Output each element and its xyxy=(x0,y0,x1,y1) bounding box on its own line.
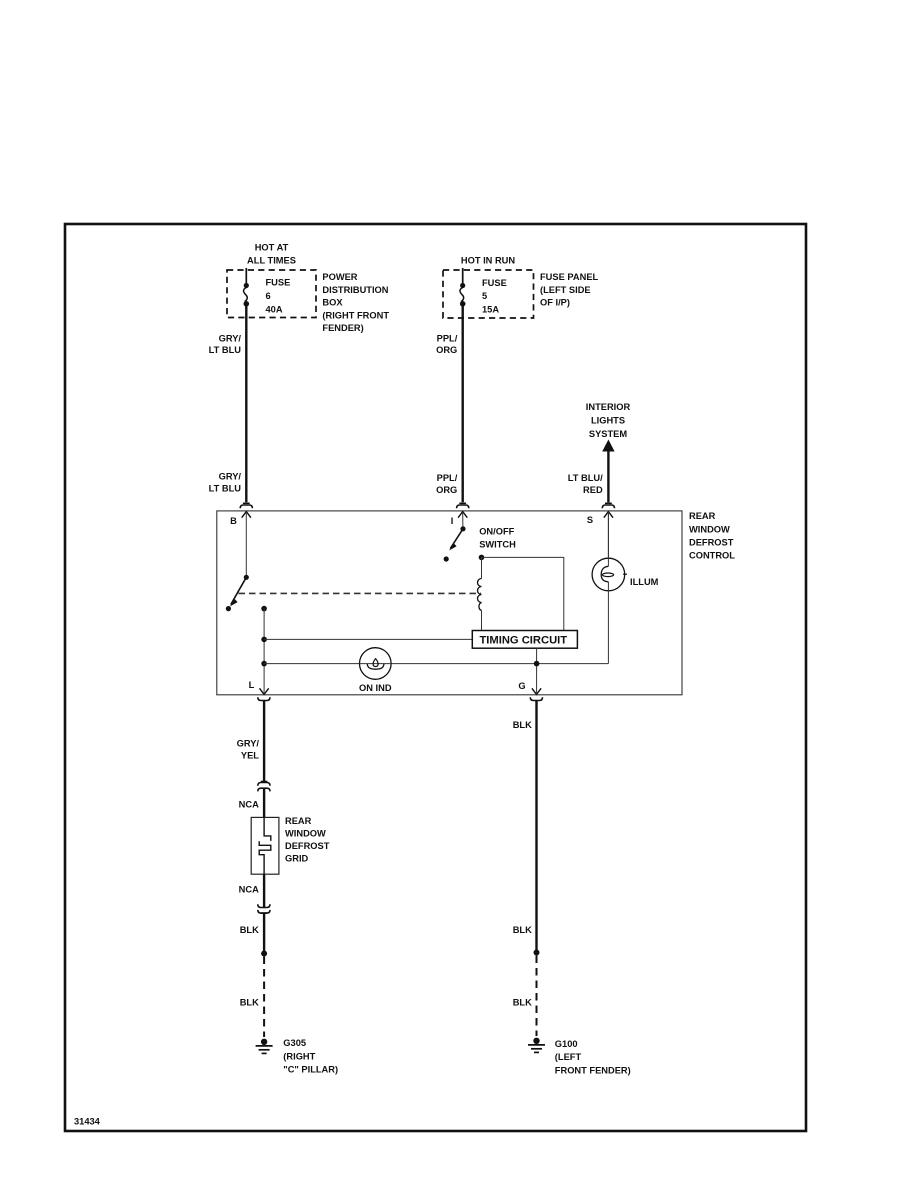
svg-text:(LEFT SIDE: (LEFT SIDE xyxy=(540,285,591,295)
svg-text:(LEFT: (LEFT xyxy=(555,1052,582,1062)
svg-text:ILLUM: ILLUM xyxy=(630,577,659,587)
svg-text:DISTRIBUTION: DISTRIBUTION xyxy=(322,285,388,295)
svg-text:WINDOW: WINDOW xyxy=(285,829,326,839)
svg-text:OF I/P): OF I/P) xyxy=(540,298,570,308)
svg-text:ON/OFF: ON/OFF xyxy=(479,527,514,537)
svg-text:6: 6 xyxy=(266,291,271,301)
svg-text:G305: G305 xyxy=(283,1038,306,1048)
svg-text:GRY/: GRY/ xyxy=(237,738,260,748)
svg-text:GRID: GRID xyxy=(285,854,309,864)
svg-text:L: L xyxy=(249,680,255,690)
svg-text:40A: 40A xyxy=(266,305,283,315)
svg-text:FUSE: FUSE xyxy=(482,278,507,288)
svg-text:15A: 15A xyxy=(482,305,499,315)
svg-text:SWITCH: SWITCH xyxy=(479,540,516,550)
svg-text:LT BLU: LT BLU xyxy=(209,484,242,494)
svg-text:YEL: YEL xyxy=(241,750,259,760)
svg-text:5: 5 xyxy=(482,291,487,301)
svg-text:RED: RED xyxy=(583,485,603,495)
svg-text:PPL/: PPL/ xyxy=(437,473,458,483)
svg-text:CONTROL: CONTROL xyxy=(689,551,735,561)
svg-text:ORG: ORG xyxy=(436,345,457,355)
svg-text:"C" PILLAR): "C" PILLAR) xyxy=(283,1064,338,1074)
svg-text:INTERIOR: INTERIOR xyxy=(586,402,631,412)
svg-text:DEFROST: DEFROST xyxy=(689,538,734,548)
svg-text:LT BLU: LT BLU xyxy=(209,345,242,355)
svg-text:HOT IN RUN: HOT IN RUN xyxy=(461,256,516,266)
svg-text:FUSE: FUSE xyxy=(266,278,291,288)
svg-text:BOX: BOX xyxy=(322,298,343,308)
svg-text:ALL TIMES: ALL TIMES xyxy=(247,256,296,266)
svg-text:BLK: BLK xyxy=(513,925,532,935)
svg-text:POWER: POWER xyxy=(322,272,357,282)
svg-text:ORG: ORG xyxy=(436,485,457,495)
svg-text:BLK: BLK xyxy=(513,998,532,1008)
svg-text:SYSTEM: SYSTEM xyxy=(589,429,627,439)
svg-text:(RIGHT: (RIGHT xyxy=(283,1052,315,1062)
svg-text:FUSE PANEL: FUSE PANEL xyxy=(540,272,599,282)
svg-text:I: I xyxy=(451,516,454,526)
svg-text:GRY/: GRY/ xyxy=(219,334,242,344)
svg-text:ON IND: ON IND xyxy=(359,683,392,693)
svg-text:TIMING CIRCUIT: TIMING CIRCUIT xyxy=(479,634,567,646)
svg-text:S: S xyxy=(587,515,593,525)
svg-text:BLK: BLK xyxy=(513,720,532,730)
svg-text:WINDOW: WINDOW xyxy=(689,525,730,535)
svg-text:LIGHTS: LIGHTS xyxy=(591,416,625,426)
svg-text:PPL/: PPL/ xyxy=(437,334,458,344)
svg-text:LT BLU/: LT BLU/ xyxy=(568,473,603,483)
svg-text:HOT AT: HOT AT xyxy=(255,242,289,252)
svg-text:DEFROST: DEFROST xyxy=(285,841,330,851)
svg-text:G100: G100 xyxy=(555,1039,578,1049)
svg-text:G: G xyxy=(518,681,525,691)
svg-text:31434: 31434 xyxy=(74,1117,101,1127)
svg-text:BLK: BLK xyxy=(240,998,259,1008)
svg-text:(RIGHT FRONT: (RIGHT FRONT xyxy=(322,310,389,320)
svg-text:NCA: NCA xyxy=(239,884,259,894)
svg-text:B: B xyxy=(230,516,237,526)
svg-text:FENDER): FENDER) xyxy=(322,323,363,333)
svg-text:GRY/: GRY/ xyxy=(219,472,242,482)
svg-text:REAR: REAR xyxy=(689,511,716,521)
svg-text:BLK: BLK xyxy=(240,925,259,935)
svg-text:REAR: REAR xyxy=(285,816,312,826)
svg-text:NCA: NCA xyxy=(239,799,259,809)
svg-text:FRONT FENDER): FRONT FENDER) xyxy=(555,1066,631,1076)
